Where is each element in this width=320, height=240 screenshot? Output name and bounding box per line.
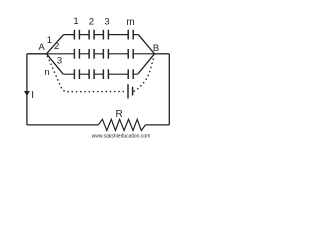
- svg-text:B: B: [153, 43, 159, 54]
- svg-text:A: A: [38, 42, 45, 53]
- capacitor 1 row 3: [74, 69, 79, 79]
- svg-text:1: 1: [47, 35, 52, 46]
- svg-text:n: n: [44, 67, 49, 78]
- wire branch 3 right diagonal: [138, 54, 155, 74]
- capacitor 3 row 3: [103, 69, 108, 79]
- wire row 2 segments A to B: [47, 53, 155, 55]
- wire branch 3 left diagonal: [47, 54, 64, 74]
- capacitor 1 row 2: [74, 49, 79, 59]
- wire left vertical: [26, 54, 28, 125]
- current arrow I: [24, 91, 30, 96]
- capacitor 2 row 3: [89, 69, 94, 79]
- svg-text:www.sakshieducation.com: www.sakshieducation.com: [92, 134, 151, 140]
- svg-text:I: I: [31, 90, 34, 101]
- capacitor 2 row 2: [89, 49, 94, 59]
- capacitor 1 row 1: [74, 30, 79, 40]
- svg-text:2: 2: [54, 41, 59, 52]
- wire branch 1 left diagonal: [47, 35, 64, 54]
- wire bottom right: [146, 124, 170, 126]
- svg-text:2: 2: [89, 17, 94, 28]
- wire row 1 segments: [64, 34, 139, 36]
- capacitor 3 row 2: [103, 49, 108, 59]
- svg-text:3: 3: [57, 56, 62, 67]
- capacitor 2 row 1: [89, 30, 94, 40]
- svg-text:R: R: [115, 109, 122, 120]
- svg-text:m: m: [126, 17, 134, 28]
- capacitor 3 row 1: [103, 30, 108, 40]
- wire left stub from node A: [27, 53, 47, 55]
- capacitor m row 3: [128, 69, 133, 79]
- wire branch n dotted right curve: [134, 56, 154, 91]
- wire right vertical: [168, 54, 170, 125]
- wire branch 1 right diagonal: [138, 35, 154, 54]
- capacitor m row n: [128, 84, 133, 98]
- capacitor m row 1: [128, 30, 133, 40]
- wire bottom left: [27, 124, 98, 126]
- svg-text:3: 3: [104, 17, 109, 28]
- wire right stub to node B: [155, 53, 170, 55]
- resistor R: [98, 119, 145, 130]
- wire row 3 segments: [63, 73, 138, 75]
- capacitor m row 2: [128, 49, 133, 59]
- svg-text:1: 1: [73, 16, 78, 27]
- wire branch n dotted left curve: [48, 57, 69, 92]
- wire row n dotted horizontal: [68, 91, 126, 93]
